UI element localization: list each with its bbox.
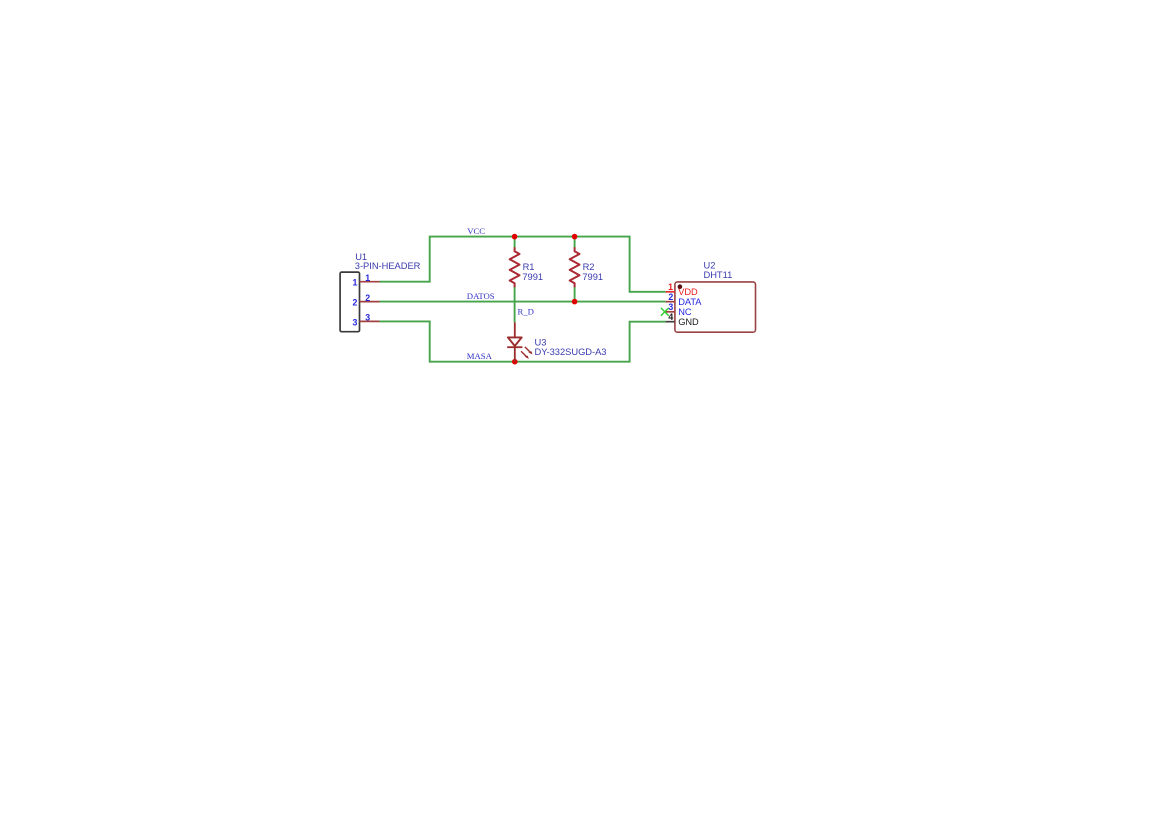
net label VCC: [467, 226, 485, 236]
junction dot VCC/R1: [512, 234, 518, 240]
wire R1 top stub to VCC: [514, 237, 516, 248]
U1 outer pin number 3: [365, 313, 370, 323]
svg-text:NC: NC: [678, 307, 692, 317]
U3 reference label: [535, 338, 547, 348]
no-connect X on pin 3: [661, 308, 669, 316]
resistor R1: [510, 247, 520, 287]
wire R2 top stub to VCC: [574, 237, 576, 248]
wire MASA net (header pin3 to LED cathode to DHT11 GND): [380, 321, 666, 361]
svg-text:DATOS: DATOS: [467, 291, 495, 301]
svg-text:VCC: VCC: [467, 226, 485, 236]
svg-text:R1: R1: [523, 262, 535, 272]
svg-text:1: 1: [365, 273, 370, 283]
svg-text:R2: R2: [583, 262, 595, 272]
R1 value label 7991: [522, 272, 543, 282]
resistor R2: [570, 247, 580, 287]
svg-text:7991: 7991: [522, 272, 543, 282]
svg-text:1: 1: [668, 282, 673, 292]
U2 pin name VDD: [678, 287, 698, 297]
U1 inner pin number 3: [352, 317, 357, 327]
U1 reference label: [355, 252, 367, 262]
wire VCC net (header pin1 to VCC rail to DHT11 VDD): [380, 237, 666, 292]
U2 pin name GND: [678, 317, 699, 327]
U1 outer pin number 2: [365, 293, 370, 303]
svg-text:GND: GND: [678, 317, 699, 327]
svg-text:3-PIN-HEADER: 3-PIN-HEADER: [355, 261, 421, 271]
svg-text:DATA: DATA: [678, 297, 702, 307]
svg-text:R_D: R_D: [518, 307, 534, 317]
U2 pin number 3: [668, 302, 673, 312]
svg-text:1: 1: [352, 278, 357, 288]
svg-text:2: 2: [668, 292, 673, 302]
svg-text:U2: U2: [704, 261, 716, 271]
R2 value label 7991: [582, 272, 603, 282]
svg-text:MASA: MASA: [467, 351, 493, 361]
svg-text:3: 3: [668, 302, 673, 312]
LED U3 anode pin: [514, 322, 516, 337]
junction dot DATOS/R2: [572, 299, 578, 305]
DHT11 pin-1 marker dot: [678, 284, 683, 289]
LED U3 triangle: [508, 337, 522, 346]
U2 pin number 4: [668, 312, 673, 322]
junction dot VCC/R2: [572, 234, 578, 240]
LED U3 light arrow 2: [521, 351, 529, 359]
LED U3 cathode bar: [507, 346, 522, 348]
net label MASA: [467, 351, 493, 361]
U2 pin number 2: [668, 292, 673, 302]
svg-text:2: 2: [365, 293, 370, 303]
U2 pin name DATA: [678, 297, 702, 307]
connector U1 3-PIN-HEADER body: [340, 272, 359, 332]
R2 reference label: [583, 262, 595, 272]
U2 pin name NC: [678, 307, 692, 317]
U3 value label DY-332SUGD-A3: [535, 347, 607, 357]
U1 value label 3-PIN-HEADER: [355, 261, 421, 271]
LED U3 light arrow 1: [525, 347, 533, 355]
U2 pin 2 DATA stub: [666, 301, 675, 303]
svg-text:7991: 7991: [582, 272, 603, 282]
U1 outer pin number 1: [365, 273, 370, 283]
U2 pin 3 NC stub: [666, 311, 675, 313]
net label R_D: [518, 307, 534, 317]
wire R_D net (R1 bottom to LED anode): [514, 287, 516, 323]
wire R2 bottom to DATOS: [574, 287, 576, 302]
svg-text:U3: U3: [535, 338, 547, 348]
svg-text:2: 2: [352, 298, 357, 308]
U1 inner pin number 1: [352, 278, 357, 288]
junction dot MASA/LED: [512, 359, 518, 365]
U2 pin 4 GND stub: [666, 321, 675, 323]
wire DATOS net (header pin2 to DHT11 DATA): [380, 301, 666, 303]
U2 pin number 1: [668, 282, 673, 292]
svg-text:3: 3: [365, 313, 370, 323]
U1 inner pin number 2: [352, 298, 357, 308]
svg-text:3: 3: [352, 317, 357, 327]
U1 pin 3: [360, 320, 380, 322]
U2 value label DHT11: [704, 270, 733, 280]
net label DATOS: [467, 291, 495, 301]
U2 reference label: [704, 261, 716, 271]
R1 reference label: [523, 262, 535, 272]
svg-text:VDD: VDD: [678, 287, 698, 297]
DHT11 U2 body: [675, 282, 756, 332]
U1 pin 1: [360, 281, 380, 283]
U1 pin 2: [360, 301, 380, 303]
U2 pin 1 VDD stub: [666, 291, 675, 293]
svg-text:DHT11: DHT11: [704, 270, 733, 280]
svg-text:DY-332SUGD-A3: DY-332SUGD-A3: [535, 347, 607, 357]
svg-text:4: 4: [668, 312, 673, 322]
LED U3 cathode pin: [514, 347, 516, 362]
